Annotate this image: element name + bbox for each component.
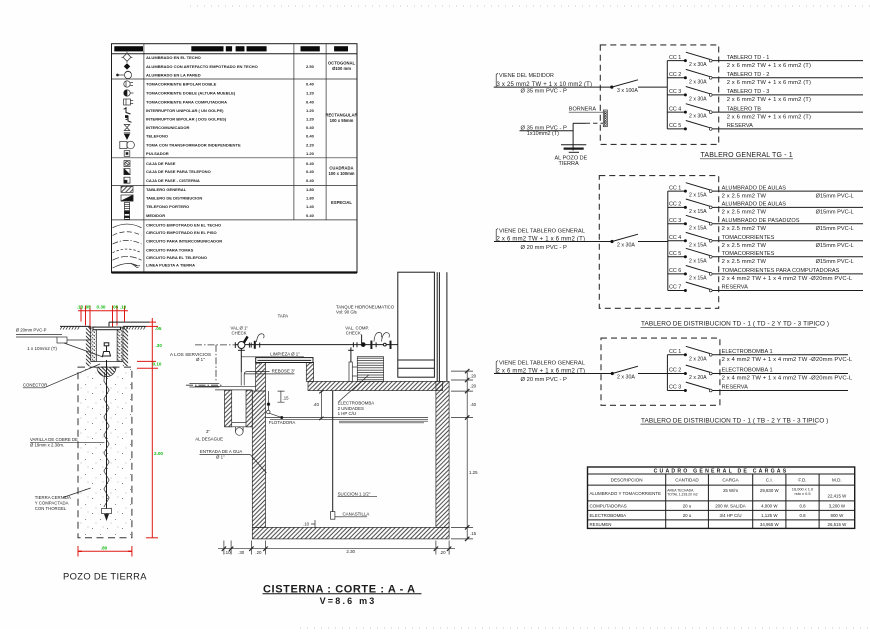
symbol outlet with transformer: [120, 141, 135, 149]
svg-text:TAPA: TAPA: [278, 314, 289, 319]
earth hatch band left of registro: [86, 327, 91, 366]
svg-text:rsto x 0.5: rsto x 0.5: [794, 491, 810, 496]
rod tip: [104, 514, 109, 521]
svg-text:.20: .20: [470, 384, 477, 389]
svg-text:CUADRO GENERAL DE CARGAS: CUADRO GENERAL DE CARGAS: [654, 468, 789, 474]
svg-text:.20: .20: [439, 550, 446, 555]
svg-text:ELECTROBOMBA 1: ELECTROBOMBA 1: [722, 349, 773, 355]
svg-text:2 x 2.5 mm2 TW: 2 x 2.5 mm2 TW: [722, 243, 767, 249]
svg-text:29,830 W: 29,830 W: [760, 488, 780, 493]
wire output ALUMBRADO DE AULAS: [712, 190, 863, 192]
pozo right dimension line (red): [137, 318, 158, 538]
svg-text:2 x 2.5 mm2 TW: 2 x 2.5 mm2 TW: [722, 259, 767, 265]
svg-text:TOMACORRIENTE PARA COMPUTADORA: TOMACORRIENTE PARA COMPUTADORA: [146, 100, 227, 105]
svg-text:1.20: 1.20: [306, 108, 315, 113]
svg-text:TOMACORRIENTES: TOMACORRIENTES: [722, 235, 775, 241]
rod zigzag: [104, 372, 109, 507]
wire output ELECTROBOMBA 1 TB: [712, 373, 848, 375]
svg-text:0.40: 0.40: [306, 169, 315, 174]
svg-text:0.10: 0.10: [153, 361, 162, 366]
svg-text:SUCCION 1 1/2": SUCCION 1 1/2": [338, 491, 371, 496]
rebose pipe: [241, 372, 269, 386]
wire circuit tomas: [113, 249, 142, 253]
svg-text:CONECTOR: CONECTOR: [23, 383, 48, 388]
svg-text:2 x 2.5 mm2 TW: 2 x 2.5 mm2 TW: [722, 226, 767, 232]
svg-text:22,415 W: 22,415 W: [828, 493, 848, 498]
svg-text:TOTAL 1,193.20 m2: TOTAL 1,193.20 m2: [667, 492, 697, 496]
svg-text:2.00: 2.00: [154, 451, 163, 456]
svg-text:2 x 6 mm2 TW + 1 x 6 mm2 (T): 2 x 6 mm2 TW + 1 x 6 mm2 (T): [727, 80, 811, 86]
bus TG-1 vertical: [666, 61, 668, 129]
svg-text:.10: .10: [224, 550, 231, 555]
svg-text:ALUMBRADO DE AULAS: ALUMBRADO DE AULAS: [722, 185, 787, 191]
svg-text:100 x 100mm: 100 x 100mm: [328, 171, 354, 176]
wire ground drop: [572, 123, 574, 150]
svg-text:2 x 15A: 2 x 15A: [689, 242, 707, 248]
legend table header bars: [114, 46, 143, 51]
sump box walls: [225, 390, 253, 427]
svg-text:2 x 20A: 2 x 20A: [689, 356, 707, 362]
symbol telephone: [124, 133, 130, 140]
load table frame: [588, 467, 855, 528]
svg-text:2 x 30A: 2 x 30A: [617, 242, 635, 248]
sheet border dotted bottom edge: [300, 627, 870, 629]
cistern left wall (hatched): [252, 363, 265, 528]
suction pipe: [332, 391, 334, 512]
svg-text:1,125 W: 1,125 W: [761, 513, 778, 518]
service pipe stub double line: [189, 383, 219, 387]
registro floor line: [91, 360, 123, 362]
svg-text:.20: .20: [255, 550, 262, 555]
svg-text:TELEFONO: TELEFONO: [146, 134, 168, 139]
svg-text:CC 5: CC 5: [669, 123, 681, 129]
svg-text:3,200 W: 3,200 W: [829, 504, 846, 509]
svg-text:Vol: 90 Gls: Vol: 90 Gls: [336, 310, 357, 315]
svg-text:4,000 W: 4,000 W: [761, 504, 778, 509]
wire bornera to ground (dashed): [573, 122, 585, 124]
svg-text:M.D.: M.D.: [832, 478, 842, 483]
svg-text:2 x 30A: 2 x 30A: [689, 114, 707, 120]
load table row resumen: [590, 522, 848, 527]
svg-text:ALUMBRADO CON ARTEFACTO EMPOTR: ALUMBRADO CON ARTEFACTO EMPOTRADO EN TEC…: [146, 64, 258, 69]
breaker CC 1 TG-1: [667, 52, 712, 68]
svg-text:VIENE DEL TABLERO GENERAL: VIENE DEL TABLERO GENERAL: [499, 228, 585, 234]
panel TD-1 dashed enclosure: [599, 176, 718, 309]
svg-text:ESPECIAL: ESPECIAL: [331, 200, 352, 205]
breaker CC 2 TG-1: [667, 69, 712, 85]
svg-text:TABLERO TB: TABLERO TB: [727, 106, 762, 112]
svg-text:TELEFONO PORTERO: TELEFONO PORTERO: [146, 204, 189, 209]
svg-text:2 x 2.5 mm2 TW: 2 x 2.5 mm2 TW: [722, 210, 767, 216]
svg-text:2 x 6 mm2 TW + 1 x 6 mm2 (T): 2 x 6 mm2 TW + 1 x 6 mm2 (T): [727, 63, 811, 69]
svg-text:RESERVA: RESERVA: [722, 285, 748, 291]
ground rod head and clamp: [103, 343, 111, 356]
svg-text:TOMACORRIENTES: TOMACORRIENTES: [722, 251, 775, 257]
svg-text:Ø15mm PVC-L: Ø15mm PVC-L: [816, 226, 854, 232]
svg-text:1 x 10mm2 (T): 1 x 10mm2 (T): [27, 346, 57, 351]
switch main 3x100A: [610, 80, 638, 94]
legend table frame: [112, 44, 358, 273]
wire feeder to main switch: [494, 86, 612, 88]
svg-text:2 x 6 mm2 TW + 1 x 6 mm2 (T): 2 x 6 mm2 TW + 1 x 6 mm2 (T): [727, 114, 811, 120]
symbol outlet above counter: [124, 90, 134, 96]
svg-text:0.8: 0.8: [799, 504, 806, 509]
node feeder entry bracket TD-1: [496, 229, 498, 242]
svg-text:Ø 20mm PVC-P: Ø 20mm PVC-P: [16, 328, 47, 333]
labels bottom dims: [224, 549, 446, 555]
registro cover tapa: [93, 327, 121, 330]
svg-text:Ø 20 mm PVC - P: Ø 20 mm PVC - P: [521, 245, 568, 251]
svg-text:Ø15mm PVC-L: Ø15mm PVC-L: [816, 210, 854, 216]
svg-text:2 x 15A: 2 x 15A: [689, 225, 707, 231]
switch main 2x30A TD-1: [610, 234, 638, 248]
ground surface line right of pit: [123, 326, 146, 329]
symbol intercom: [124, 125, 130, 131]
svg-text:34,955 W: 34,955 W: [760, 522, 780, 527]
svg-text:Ø 20 mm PVC - P: Ø 20 mm PVC - P: [521, 377, 568, 383]
svg-text:MEDIDOR: MEDIDOR: [146, 213, 165, 218]
cistern top slab (hatched): [308, 381, 443, 390]
svg-text:.10: .10: [77, 304, 84, 309]
load table headers: [611, 478, 842, 483]
switch main 2x30A TB: [611, 366, 638, 380]
water line: [266, 418, 429, 423]
svg-text:2 x 20A: 2 x 20A: [689, 375, 707, 381]
svg-text:OCTOGONAL: OCTOGONAL: [328, 61, 356, 66]
svg-text:2 x 30A: 2 x 30A: [689, 79, 707, 85]
legend notes column: [325, 61, 357, 206]
rod tip box: [102, 509, 112, 514]
svg-text:2 x 2.5 mm2 TW: 2 x 2.5 mm2 TW: [722, 193, 767, 199]
svg-text:Y COMPACTADA: Y COMPACTADA: [35, 501, 69, 506]
svg-text:CC 1: CC 1: [669, 55, 681, 61]
svg-text:ALUMBRADO DE AULAS: ALUMBRADO DE AULAS: [722, 202, 787, 208]
earth hatch band right of registro: [123, 327, 128, 366]
svg-text:TABLERO GENERAL: TABLERO GENERAL: [146, 187, 187, 192]
wire output TOMACORRIENTES: [712, 256, 863, 258]
wire output TABLERO TB: [712, 111, 863, 113]
wire output TABLERO TD - 3: [712, 94, 863, 96]
wire output ELECTROBOMBA 1 TB: [712, 354, 848, 356]
breaker CC 2 TD-1: [668, 199, 712, 215]
svg-text:.15: .15: [283, 396, 290, 401]
svg-text:.05: .05: [155, 326, 162, 331]
panel TG-1 dashed enclosure: [600, 45, 718, 144]
wire output RESERVA: [712, 290, 863, 292]
svg-text:.30: .30: [238, 550, 245, 555]
svg-text:CAJA DE PASE - CISTERNA: CAJA DE PASE - CISTERNA: [146, 178, 200, 183]
svg-text:.80: .80: [101, 546, 108, 551]
svg-text:1.80: 1.80: [306, 187, 315, 192]
svg-text:TOMACORRIENTE BIPOLAR DOBLE: TOMACORRIENTE BIPOLAR DOBLE: [146, 82, 217, 87]
svg-text:3 x 100A: 3 x 100A: [617, 88, 638, 94]
svg-text:CC 3: CC 3: [669, 89, 681, 95]
svg-text:1.20: 1.20: [306, 117, 315, 122]
svg-text:.40: .40: [470, 402, 477, 407]
svg-text:INTERRUPTOR BIPOLAR ( DOS GOLP: INTERRUPTOR BIPOLAR ( DOS GOLPES): [146, 117, 227, 122]
svg-text:RESERVA: RESERVA: [722, 385, 748, 391]
svg-text:0.30: 0.30: [97, 304, 106, 309]
breaker CC 7 TD-1: [668, 282, 712, 292]
svg-text:0.40: 0.40: [306, 178, 315, 183]
wire output RESERVA TB: [712, 390, 848, 392]
svg-text:25 W/m: 25 W/m: [723, 488, 738, 493]
registro box right wall (stippled): [117, 327, 123, 361]
svg-text:CAJA DE PASE PARA TELEFONO: CAJA DE PASE PARA TELEFONO: [146, 169, 211, 174]
svg-text:C.I.: C.I.: [766, 478, 773, 483]
wire grounded line: [113, 263, 141, 268]
dim 15 float: [278, 391, 285, 402]
svg-text:1.20: 1.20: [306, 91, 315, 96]
svg-text:TIERRA CERNIDA: TIERRA CERNIDA: [35, 495, 71, 500]
svg-text:2 x 30A: 2 x 30A: [689, 97, 707, 103]
registro box left wall (stippled): [91, 327, 97, 361]
wire switch to bus TD-1: [638, 241, 668, 243]
symbol door phone: [124, 203, 129, 211]
breaker CC 3 TD-1: [668, 215, 712, 231]
pozo top dimension labels (green): [77, 304, 127, 309]
limpieza pipe drop: [240, 349, 242, 373]
symbol computer outlet: [124, 99, 134, 105]
electric pump on slab: [349, 357, 384, 382]
pump connection to pipe: [350, 347, 352, 362]
symbol cistern pass box: [124, 177, 130, 183]
svg-text:ALUMBRADO EN EL TECHO: ALUMBRADO EN EL TECHO: [146, 55, 201, 60]
svg-text:RESERVA: RESERVA: [727, 123, 753, 129]
cistern floor (hatched): [252, 527, 449, 539]
svg-text:TABLERO GENERAL TG - 1: TABLERO GENERAL TG - 1: [701, 152, 793, 159]
svg-text:20 u: 20 u: [683, 504, 692, 509]
svg-text:CHECK: CHECK: [346, 331, 361, 336]
svg-text:TABLERO TD - 2: TABLERO TD - 2: [727, 72, 770, 78]
svg-text:CC 4: CC 4: [669, 106, 681, 112]
svg-text:2 x 4 mm2 TW + 1 x 4 mm2 TW -Ø: 2 x 4 mm2 TW + 1 x 4 mm2 TW -Ø20mm PVC-L: [722, 376, 853, 382]
ground surface line left: [60, 326, 91, 329]
svg-text:CANASTILLA: CANASTILLA: [343, 512, 370, 517]
svg-text:2 x 30A: 2 x 30A: [617, 374, 635, 380]
svg-text:CC 1: CC 1: [669, 185, 681, 191]
symbol ceiling lamp: [122, 52, 133, 63]
cistern right wall (hatched): [436, 381, 449, 527]
breaker CC 5 TG-1: [667, 121, 712, 131]
svg-text:CON THORGEL: CON THORGEL: [35, 506, 67, 511]
svg-text:CIRCUITO PARA TOMAS: CIRCUITO PARA TOMAS: [146, 247, 194, 252]
pit dashed outline: [78, 367, 132, 538]
concrete anchor semicircle: [97, 367, 116, 377]
svg-text:ENTRADA DE A GUA: ENTRADA DE A GUA: [200, 449, 243, 454]
svg-text:2 x 30A: 2 x 30A: [689, 62, 707, 68]
svg-text:TOMA CON TRANSFORMADOR INDEPEN: TOMA CON TRANSFORMADOR INDEPENDIENTE: [146, 143, 241, 148]
svg-text:CC 3: CC 3: [669, 218, 681, 224]
symbol switch 2 gang: [125, 115, 132, 122]
svg-text:0.8: 0.8: [799, 513, 806, 518]
access step wall (hatched): [306, 363, 313, 382]
ground symbol pozo: [561, 145, 586, 153]
svg-text:0.40: 0.40: [306, 82, 315, 87]
svg-text:2.20: 2.20: [306, 143, 315, 148]
svg-text:ALUMBRADO Y TOMACORRIENTE: ALUMBRADO Y TOMACORRIENTE: [590, 491, 661, 496]
svg-text:CHECK: CHECK: [232, 331, 247, 336]
wire switch to bus TB: [638, 373, 667, 375]
svg-text:.30: .30: [156, 343, 163, 348]
svg-text:VIENE DEL TABLERO GENERAL: VIENE DEL TABLERO GENERAL: [499, 360, 585, 366]
svg-text:0.40: 0.40: [306, 213, 315, 218]
svg-text:BORNERA: BORNERA: [569, 107, 597, 113]
access cover slab: [256, 358, 313, 364]
vent hook left: [256, 334, 264, 342]
pipe main horizontal: [235, 344, 397, 346]
svg-text:3": 3": [206, 429, 210, 434]
svg-text:A LOS SERVICIOS: A LOS SERVICIOS: [170, 352, 211, 358]
wire output ALUMBRADO DE AULAS: [712, 206, 863, 208]
check valve left: [235, 336, 259, 351]
float mechanism: [267, 391, 283, 419]
bus TD-1 vertical: [667, 191, 669, 290]
svg-text:CC 1: CC 1: [669, 349, 681, 355]
sump ground lines: [195, 386, 256, 390]
wire feeder TD-1: [494, 241, 612, 243]
svg-text:TABLERO TD - 1: TABLERO TD - 1: [727, 55, 770, 61]
svg-text:Ø15mm PVC-L: Ø15mm PVC-L: [816, 243, 854, 249]
symbol main board: [121, 186, 133, 192]
node feeder entry bracket TB: [496, 361, 498, 374]
svg-text:CC 5: CC 5: [669, 251, 681, 257]
svg-text:2 x 4 mm2 TW + 1 x 4 mm2 TW -Ø: 2 x 4 mm2 TW + 1 x 4 mm2 TW -Ø20mm PVC-L: [722, 276, 853, 282]
svg-text:F.D.: F.D.: [798, 478, 806, 483]
svg-text:Ø 1": Ø 1": [196, 357, 205, 362]
svg-text:CC 2: CC 2: [669, 368, 681, 374]
strainer canastilla: [331, 512, 335, 520]
dim .40 slab to water: [319, 390, 323, 420]
svg-text:0.40: 0.40: [306, 125, 315, 130]
svg-text:2 x 6 mm2 TW + 1 x 6 mm2 (T): 2 x 6 mm2 TW + 1 x 6 mm2 (T): [727, 97, 811, 103]
wire output RESERVA: [712, 128, 863, 130]
load table row electrobomba: [590, 513, 845, 518]
svg-text:POZO DE TIERRA: POZO DE TIERRA: [63, 570, 147, 581]
wire circuit telephone: [113, 256, 142, 260]
svg-text:INTERCOMUNICADOR: INTERCOMUNICADOR: [146, 125, 189, 130]
pozo bottom dimension (red): [78, 546, 132, 557]
svg-text:1.25: 1.25: [469, 470, 478, 475]
breaker CC 5 TD-1: [668, 248, 712, 264]
svg-text:AL DESAGUE: AL DESAGUE: [195, 436, 223, 441]
hydropneumatic tank: [398, 272, 435, 377]
svg-text:1.80: 1.80: [306, 196, 315, 201]
pozo cover slab line: [109, 321, 149, 323]
svg-text:.20: .20: [470, 373, 477, 378]
svg-text:CIRCUITO EMPOTRADO EN EL PISO: CIRCUITO EMPOTRADO EN EL PISO: [146, 230, 217, 235]
svg-text:LINEA PUESTA A TIERRA: LINEA PUESTA A TIERRA: [146, 263, 195, 268]
svg-text:Ø15mm PVC-L: Ø15mm PVC-L: [816, 259, 854, 265]
symbol push button: [124, 151, 130, 157]
breaker CC 2 TB: [667, 365, 712, 381]
breaker CC 3 TG-1: [667, 87, 712, 103]
symbol phone pass box: [124, 169, 130, 175]
svg-text:2 x 15A: 2 x 15A: [689, 193, 707, 199]
svg-text:100 x 55mm: 100 x 55mm: [330, 118, 354, 123]
symbol pass box: [124, 161, 130, 167]
svg-text:.40: .40: [313, 402, 320, 407]
svg-text:FLOTADORA: FLOTADORA: [269, 420, 296, 425]
pozo top dimension line (red): [78, 306, 128, 330]
panel TB dashed enclosure: [601, 338, 720, 405]
svg-text:CC 6: CC 6: [669, 268, 681, 274]
bus TB vertical: [666, 355, 668, 391]
svg-text:1x10mm2 (T): 1x10mm2 (T): [527, 131, 559, 137]
svg-text:.10: .10: [303, 522, 310, 527]
svg-text:REBOSE 3": REBOSE 3": [272, 369, 296, 374]
breaker CC 3 TB: [667, 382, 712, 392]
svg-text:1.40: 1.40: [306, 204, 315, 209]
breaker CC 1 TD-1: [668, 183, 712, 199]
svg-text:.15: .15: [470, 531, 477, 536]
svg-text:2 x 15A: 2 x 15A: [689, 258, 707, 264]
load table row computadoras: [590, 504, 846, 509]
svg-text:.05: .05: [84, 304, 91, 309]
svg-text:CC 2: CC 2: [669, 202, 681, 208]
cistern bottom dimension line: [218, 541, 455, 555]
svg-text:CAJA DE PASE: CAJA DE PASE: [146, 161, 176, 166]
svg-text:VARILLA DE COBRE DE: VARILLA DE COBRE DE: [30, 437, 78, 442]
svg-text:CUADRADA: CUADRADA: [329, 166, 353, 171]
svg-text:Ø100 mm: Ø100 mm: [332, 66, 351, 71]
svg-text:TOMACORRIENTE DOBLE (ALTURA MU: TOMACORRIENTE DOBLE (ALTURA MUEBLE): [146, 91, 236, 96]
load table row alumbrado: [590, 486, 848, 498]
svg-text:CC 4: CC 4: [669, 235, 681, 241]
svg-text:INTERRUPTOR UNIPOLAR ( UN GOLP: INTERRUPTOR UNIPOLAR ( UN GOLPE): [146, 108, 224, 113]
svg-text:2 x 15A: 2 x 15A: [689, 209, 707, 215]
symbol meter: [124, 211, 129, 219]
svg-text:1 HP C/U: 1 HP C/U: [338, 411, 356, 416]
svg-text:900 W: 900 W: [831, 513, 845, 518]
pozo right dimension labels (green): [153, 326, 164, 456]
svg-text:CIRCUITO PARA INTERCOMUNICADOR: CIRCUITO PARA INTERCOMUNICADOR: [146, 239, 222, 244]
wire output ALUMBRADO DE PASADIZOS: [712, 223, 863, 225]
svg-text:200 W. SALIDA: 200 W. SALIDA: [715, 504, 746, 509]
svg-text:TABLERO DE DISTRIBUCION: TABLERO DE DISTRIBUCION: [146, 196, 202, 201]
svg-text:Ø 35 mm PVC - P: Ø 35 mm PVC - P: [521, 88, 568, 94]
svg-text:LIMPIEZA Ø 1": LIMPIEZA Ø 1": [270, 352, 300, 357]
svg-text:RECTANGULAR: RECTANGULAR: [325, 113, 357, 118]
svg-text:CC 7: CC 7: [669, 285, 681, 291]
legend row texts: [146, 55, 315, 268]
breaker CC 6 TD-1: [668, 266, 712, 282]
svg-text:CANTIDAD: CANTIDAD: [675, 478, 699, 483]
svg-text:TABLERO TD - 3: TABLERO TD - 3: [727, 89, 770, 95]
svg-text:TABLERO DE DISTRIBUCION TD - 1: TABLERO DE DISTRIBUCION TD - 1 ( TB - 2 …: [641, 417, 828, 424]
svg-text:CC 3: CC 3: [669, 385, 681, 391]
svg-text:2.30: 2.30: [346, 549, 355, 554]
svg-text:CIRCUITO EMPOTRADO EN EL TECHO: CIRCUITO EMPOTRADO EN EL TECHO: [146, 222, 221, 227]
svg-text:3/4 HP C/U: 3/4 HP C/U: [719, 513, 741, 518]
svg-text:.10: .10: [120, 304, 127, 309]
svg-text:TABLERO DE DISTRIBUCION TD - 1: TABLERO DE DISTRIBUCION TD - 1 ( TD - 2 …: [641, 321, 829, 328]
svg-text:CIRCUITO PARA EL TELEFONO: CIRCUITO PARA EL TELEFONO: [146, 255, 207, 260]
terminal block BORNERA: [603, 110, 607, 127]
cistern right dimension column: [451, 369, 473, 541]
symbol recessed lamp: [124, 63, 130, 69]
svg-text:26,515 W: 26,515 W: [828, 522, 848, 527]
symbol wall lamp: [117, 71, 132, 79]
wire to clamp: [64, 343, 103, 357]
svg-text:2.50: 2.50: [306, 64, 315, 69]
breaker CC 4 TG-1: [667, 104, 712, 120]
svg-text:TOMACORRIENTES PARA COMPUTADOR: TOMACORRIENTES PARA COMPUTADORAS: [722, 268, 840, 274]
svg-text:VIENE DEL MEDIDOR: VIENE DEL MEDIDOR: [499, 73, 554, 79]
wire output TOMACORRIENTES PARA COMPUTADORAS: [712, 273, 863, 275]
svg-text:Ø 19mm x 2.30m.: Ø 19mm x 2.30m.: [30, 443, 64, 448]
wire output TABLERO TD - 2: [712, 77, 863, 79]
